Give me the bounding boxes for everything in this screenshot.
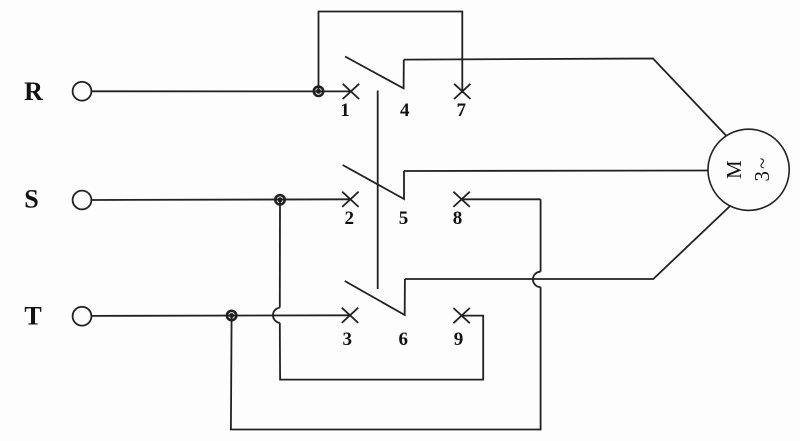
terminal T [73,307,92,326]
terminal R [73,82,92,101]
wire T horizontal [92,314,351,317]
svg-text:6: 6 [398,329,408,350]
motor label M 3~ (rotated) [722,156,774,182]
wire S horizontal [92,198,351,201]
wire row1 output to motor [404,59,727,137]
svg-text:M: M [722,160,746,179]
wire T junction to contact 8 (with hop over row3 output) [231,199,541,429]
contact X 7 [454,84,470,99]
switch blade row 1 [345,57,404,89]
junction R [314,87,323,96]
svg-text:5: 5 [399,208,409,229]
contact X 1 [343,84,359,99]
wire R bracket to contact 7 [319,12,463,92]
svg-text:3: 3 [343,329,353,350]
svg-text:4: 4 [400,100,410,121]
contact X 8 [453,192,469,207]
motor M1 [708,129,789,210]
wire contact 8 to T riser [462,198,541,200]
contact X 3 [342,308,358,323]
svg-text:T: T [24,301,41,330]
terminal S [73,191,92,210]
svg-text:8: 8 [453,208,463,229]
svg-text:1: 1 [340,100,350,121]
wire row2 output to motor [404,170,708,173]
wire S junction to contact 9 (with hop over T wire) [273,200,483,380]
switch shaft [377,91,379,290]
wire row3 output to motor [405,206,731,280]
svg-text:2: 2 [345,208,355,229]
contact X 9 [453,308,469,323]
svg-text:7: 7 [457,100,467,121]
contact X 2 [342,192,358,207]
svg-text:S: S [24,185,38,214]
svg-text:9: 9 [454,329,464,350]
switch blade row 3 [345,279,405,315]
switch blade row 2 [343,165,404,199]
svg-text:3~: 3~ [750,156,774,182]
junction S [275,195,284,204]
junction T [227,311,236,320]
svg-text:R: R [24,77,43,106]
wire R horizontal [92,90,351,92]
